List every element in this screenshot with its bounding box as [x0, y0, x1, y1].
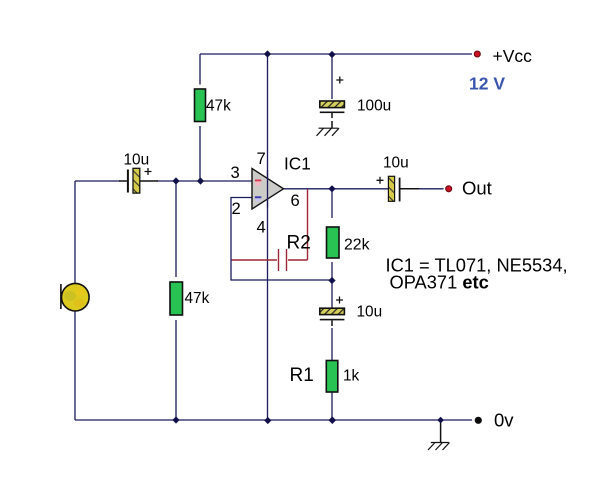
svg-text:12 V: 12 V [469, 74, 505, 94]
svg-text:R1: R1 [290, 365, 314, 386]
svg-text:10u: 10u [383, 155, 409, 172]
svg-text:7: 7 [257, 149, 266, 168]
svg-text:Out: Out [462, 178, 492, 199]
svg-text:+Vcc: +Vcc [493, 46, 533, 66]
svg-text:22k: 22k [344, 237, 370, 254]
svg-text:10u: 10u [124, 152, 150, 169]
svg-text:100u: 100u [357, 98, 391, 115]
svg-text:47k: 47k [206, 98, 231, 115]
svg-text:4: 4 [257, 218, 266, 237]
svg-text:OPA371 etc: OPA371 etc [390, 272, 489, 293]
svg-text:3: 3 [231, 163, 240, 182]
svg-text:2: 2 [232, 199, 241, 218]
svg-text:6: 6 [291, 191, 300, 210]
svg-text:10u: 10u [357, 304, 383, 321]
svg-text:1k: 1k [343, 368, 360, 385]
svg-text:R2: R2 [287, 233, 311, 254]
svg-text:0v: 0v [494, 410, 514, 431]
svg-text:IC1: IC1 [284, 153, 311, 173]
svg-text:47k: 47k [185, 290, 210, 307]
